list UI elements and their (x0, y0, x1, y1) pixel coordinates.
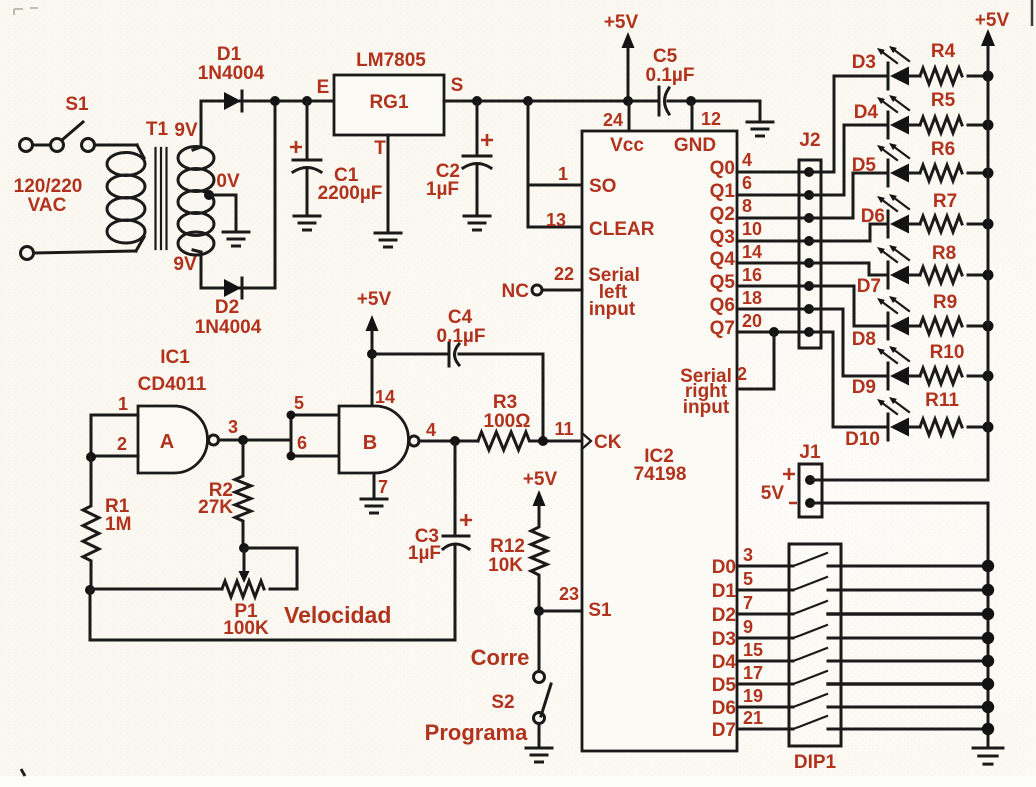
svg-text:R4: R4 (931, 41, 956, 62)
wire gate B inputs (291, 415, 339, 456)
ground center tap (223, 232, 249, 246)
power +5V top right (975, 10, 1010, 480)
diode D1 (198, 44, 265, 111)
wire Q2 stub pin 8 (737, 196, 809, 218)
svg-text:7: 7 (378, 477, 388, 497)
LED D8 (852, 296, 920, 350)
svg-text:+5V: +5V (975, 10, 1010, 31)
DIP switch row D7 pin 21 (737, 708, 994, 735)
node SO branch (523, 96, 533, 106)
svg-text:3: 3 (228, 417, 238, 437)
node NC (502, 264, 582, 302)
svg-text:1µF: 1µF (408, 543, 441, 564)
svg-text:11: 11 (554, 419, 573, 439)
wire RG1 T pin (387, 135, 390, 231)
svg-text:19: 19 (743, 686, 763, 706)
IC2 D0-D7 labels (712, 557, 737, 741)
svg-text:D1: D1 (712, 581, 737, 602)
svg-text:D2: D2 (215, 297, 239, 318)
node +5V/pin24 (623, 96, 633, 106)
DIP switch row D2 pin 7 (737, 593, 994, 620)
svg-text:CK: CK (594, 432, 622, 453)
svg-text:16: 16 (742, 265, 762, 285)
scan artifact bottom left (21, 769, 25, 776)
ground C2 (464, 216, 490, 230)
node center tap (204, 190, 214, 200)
svg-text:5V: 5V (761, 483, 785, 504)
IC2 Q0-Q7 labels (710, 158, 736, 339)
svg-text:10K: 10K (488, 555, 523, 576)
svg-text:24: 24 (603, 110, 623, 130)
node R2 bottom (239, 543, 249, 553)
svg-text:R5: R5 (931, 90, 956, 111)
wire serial right input pin 2 (737, 332, 774, 389)
resistor R12 (488, 469, 557, 611)
ground RG1 T (375, 233, 401, 247)
ground top (747, 122, 773, 136)
switch S2 (534, 611, 552, 747)
svg-text:CD4011: CD4011 (138, 374, 207, 395)
IC2 clock chevron (582, 433, 591, 449)
svg-text:100K: 100K (223, 618, 269, 639)
potentiometer P1 (90, 548, 297, 639)
svg-text:T: T (374, 138, 386, 159)
svg-text:B: B (363, 432, 377, 454)
wire C5 right to ground (668, 100, 760, 103)
node R1 bottom (85, 585, 95, 595)
svg-text:D6: D6 (712, 698, 736, 719)
power +5V mid arrow (604, 12, 639, 101)
svg-text:1µF: 1µF (426, 179, 459, 200)
svg-text:1M: 1M (105, 514, 131, 535)
wire J1 minus to rail (810, 502, 988, 505)
DIP switch row D6 pin 19 (737, 686, 994, 713)
wire J2 to D7 (809, 263, 888, 275)
svg-text:input: input (589, 299, 636, 320)
wire D2 up to node (274, 101, 277, 288)
svg-text:A: A (160, 431, 174, 453)
node diode junction (270, 96, 280, 106)
DIP switch row D0 pin 3 (737, 545, 994, 572)
wire gate B output (419, 440, 478, 443)
svg-text:Q6: Q6 (710, 295, 735, 316)
svg-text:3: 3 (743, 545, 753, 565)
DIP switch row D5 pin 17 (737, 663, 994, 690)
resistor R5 (920, 90, 994, 133)
svg-text:D5: D5 (852, 155, 877, 176)
node gate A input junction (86, 452, 96, 462)
svg-text:Corre: Corre (471, 645, 530, 670)
svg-text:8: 8 (742, 196, 752, 216)
wire Q7 stub pin 20 (737, 311, 809, 332)
wire gate B pin 7 (373, 473, 376, 497)
svg-text:17: 17 (743, 663, 763, 683)
wire J2 to D4 (809, 125, 888, 195)
svg-text:+5V: +5V (357, 289, 392, 310)
svg-text:9V: 9V (174, 120, 198, 141)
wire gate A inputs (91, 415, 138, 457)
regulator RG1 LM7805 (317, 50, 464, 159)
svg-text:D3: D3 (712, 629, 736, 650)
LED D7 (857, 245, 920, 297)
wire Q0 stub pin 4 (737, 150, 809, 172)
IC1 labels (138, 347, 207, 395)
svg-text:120/220: 120/220 (14, 176, 83, 197)
resistor R8 (920, 243, 994, 283)
svg-text:10: 10 (742, 219, 762, 239)
svg-text:RG1: RG1 (369, 92, 409, 113)
svg-text:VAC: VAC (28, 195, 67, 216)
wire Q6 stub pin 18 (737, 288, 809, 309)
svg-text:18: 18 (742, 288, 762, 308)
svg-text:12: 12 (701, 109, 721, 129)
svg-text:D0: D0 (712, 557, 736, 578)
svg-text:R8: R8 (932, 243, 956, 264)
wire center tap (209, 195, 236, 230)
wire DIP common rail (987, 503, 990, 746)
wire Q1 stub pin 6 (737, 173, 809, 195)
svg-text:Vcc: Vcc (610, 135, 644, 156)
node gate A output (238, 435, 248, 445)
svg-text:J1: J1 (799, 442, 821, 463)
svg-text:Q0: Q0 (710, 158, 735, 179)
svg-text:2: 2 (117, 434, 127, 454)
node pin12 junction (686, 96, 696, 106)
svg-text:DIP1: DIP1 (794, 752, 837, 773)
node C3 branch (450, 436, 460, 446)
svg-text:IC1: IC1 (160, 347, 190, 368)
node CK junction (538, 436, 548, 446)
svg-text:Q3: Q3 (710, 227, 735, 248)
LED D6 (861, 194, 920, 237)
svg-text:R9: R9 (933, 292, 957, 313)
svg-text:D8: D8 (852, 329, 876, 350)
label 120/220 VAC (14, 176, 83, 216)
ground S2 (526, 748, 552, 762)
svg-text:LM7805: LM7805 (356, 50, 426, 71)
svg-text:1: 1 (118, 394, 128, 414)
svg-text:D7: D7 (712, 720, 736, 741)
scan artifact top left (14, 8, 38, 15)
ground gate B (361, 499, 387, 513)
transformer T1 core (156, 148, 167, 249)
svg-text:S2: S2 (491, 692, 514, 713)
wire RG1 output rail (444, 100, 658, 103)
IC2 74198 box (582, 131, 737, 751)
op-amp gate B (NAND IC1b) (339, 406, 419, 473)
wire J2 to D8 (809, 286, 888, 326)
svg-text:20: 20 (742, 311, 762, 331)
svg-text:S: S (451, 75, 464, 96)
svg-text:5: 5 (743, 569, 753, 589)
svg-text:13: 13 (546, 210, 566, 230)
DIP1 box (789, 544, 841, 773)
svg-text:CLEAR: CLEAR (589, 219, 655, 240)
svg-text:1N4004: 1N4004 (198, 63, 265, 84)
wire J2 to D9 (809, 309, 888, 376)
svg-text:C5: C5 (653, 46, 678, 67)
svg-text:D4: D4 (854, 102, 879, 123)
svg-text:100Ω: 100Ω (484, 411, 531, 432)
wire J1 plus to rail (810, 479, 988, 482)
scan artifact top right edge (1031, 0, 1034, 26)
capacitor C2 (426, 101, 493, 214)
wire pin 24 stub (628, 101, 631, 131)
ground C1 (294, 216, 320, 230)
op-amp gate A (NAND IC1a) (138, 406, 219, 473)
wire secondary bottom to D2 (201, 252, 275, 288)
svg-text:D1: D1 (217, 44, 242, 65)
svg-text:6: 6 (742, 173, 752, 193)
wire J2 to D3 (809, 76, 888, 172)
svg-text:input: input (683, 397, 730, 418)
svg-text:14: 14 (742, 242, 762, 262)
wire to top ground (759, 101, 762, 120)
resistor R6 (920, 139, 994, 181)
node S1 pin 23 (534, 606, 544, 616)
svg-text:22: 22 (554, 264, 574, 284)
svg-text:21: 21 (743, 708, 763, 728)
wire Q3 stub pin 10 (737, 219, 809, 241)
svg-text:D4: D4 (712, 652, 737, 673)
svg-text:Q1: Q1 (710, 181, 736, 202)
wire Q5 stub pin 16 (737, 265, 809, 286)
svg-text:S1: S1 (65, 94, 89, 115)
svg-text:2: 2 (737, 364, 747, 384)
svg-text:D9: D9 (852, 377, 876, 398)
capacitor C5 (646, 46, 695, 115)
svg-text:15: 15 (743, 640, 763, 660)
svg-text:Q2: Q2 (710, 204, 735, 225)
capacitor C4 (372, 307, 543, 441)
LED D3 (852, 46, 920, 89)
DIP switch row D3 pin 9 (737, 617, 994, 644)
node C1 junction (302, 96, 312, 106)
wire lower terminal to transformer (34, 251, 136, 253)
svg-text:0.1µF: 0.1µF (646, 65, 695, 86)
svg-text:+5V: +5V (523, 469, 558, 490)
svg-text:R3: R3 (493, 392, 517, 413)
node C4 branch (367, 349, 377, 359)
svg-text:7: 7 (743, 593, 753, 613)
resistor R4 (920, 41, 994, 84)
svg-text:6: 6 (297, 433, 307, 453)
resistor R9 (920, 292, 994, 334)
svg-text:D3: D3 (852, 52, 876, 73)
wire secondary top to D1 (201, 101, 338, 147)
svg-text:D7: D7 (857, 276, 881, 297)
svg-text:9: 9 (743, 617, 753, 637)
transformer T1 secondary winding (178, 147, 214, 256)
svg-text:D2: D2 (712, 605, 736, 626)
capacitor C3 (408, 441, 472, 640)
capacitor C1 (290, 101, 382, 214)
svg-text:SO: SO (589, 176, 616, 197)
svg-text:14: 14 (375, 387, 395, 407)
svg-text:R7: R7 (933, 191, 957, 212)
svg-text:D10: D10 (845, 429, 880, 450)
wire J2 to D10 (809, 332, 888, 427)
svg-text:0V: 0V (216, 171, 240, 192)
svg-text:GND: GND (674, 135, 716, 156)
svg-text:S1: S1 (588, 600, 612, 621)
resistor R11 (920, 390, 994, 435)
wire gate A output (219, 439, 292, 442)
svg-text:4: 4 (426, 420, 436, 440)
wire Q4 stub pin 14 (737, 242, 809, 263)
svg-text:E: E (317, 77, 330, 98)
power +5V gate B (357, 289, 392, 406)
svg-text:Q7: Q7 (710, 318, 735, 339)
wire SO/CLEAR branch (528, 101, 581, 227)
svg-text:R6: R6 (931, 139, 955, 160)
svg-text:D5: D5 (712, 675, 737, 696)
svg-text:1N4004: 1N4004 (195, 317, 262, 338)
terminal lower VAC (21, 247, 34, 260)
wire pin 12 stub (691, 101, 694, 131)
svg-text:0.1µF: 0.1µF (437, 326, 486, 347)
wire J2 to D6 (809, 224, 888, 241)
svg-text:5: 5 (294, 393, 304, 413)
svg-text:1: 1 (558, 164, 568, 184)
connector J2 (799, 130, 821, 348)
node C2 junction (472, 96, 482, 106)
svg-text:R11: R11 (925, 390, 959, 411)
diode D2 (195, 278, 262, 338)
LED D5 (852, 143, 920, 186)
svg-text:Q4: Q4 (710, 249, 736, 270)
svg-text:Q5: Q5 (710, 272, 736, 293)
LED D9 (852, 346, 920, 398)
svg-text:Programa: Programa (425, 720, 528, 745)
wire pin 23 stub (539, 610, 582, 613)
svg-text:Velocidad: Velocidad (284, 602, 391, 628)
wire S1 to transformer (95, 144, 137, 147)
switch S1 (20, 94, 95, 152)
IC2 pin name labels (588, 135, 732, 621)
svg-text:R12: R12 (490, 536, 525, 557)
svg-text:74198: 74198 (634, 464, 687, 485)
resistor R7 (920, 191, 994, 232)
svg-text:2200µF: 2200µF (318, 183, 383, 204)
LED D10 (845, 397, 920, 450)
svg-text:NC: NC (502, 281, 530, 302)
svg-text:27K: 27K (198, 497, 233, 518)
svg-text:9V: 9V (173, 254, 197, 275)
connector J1 (761, 442, 822, 517)
DIP switch row D1 pin 5 (737, 569, 994, 596)
svg-text:T1: T1 (146, 119, 169, 140)
resistor R2 (198, 440, 251, 548)
resistor R10 (920, 342, 994, 384)
LED D4 (854, 95, 920, 138)
wire oscillator bottom loop (90, 590, 455, 640)
svg-text:+5V: +5V (604, 12, 639, 33)
node Q7 junction (769, 327, 779, 337)
transformer T1 primary winding (107, 145, 145, 251)
svg-text:C4: C4 (448, 307, 473, 328)
DIP switch row D4 pin 15 (737, 640, 994, 667)
svg-text:J2: J2 (799, 130, 820, 151)
svg-text:D6: D6 (861, 206, 885, 227)
ground DIP rail (973, 748, 1003, 764)
svg-text:R10: R10 (930, 342, 965, 363)
svg-text:23: 23 (559, 584, 579, 604)
wire J2 to D5 (809, 173, 888, 218)
resistor R1 (83, 457, 131, 590)
svg-text:4: 4 (742, 150, 752, 170)
resistor R3 (478, 392, 582, 450)
